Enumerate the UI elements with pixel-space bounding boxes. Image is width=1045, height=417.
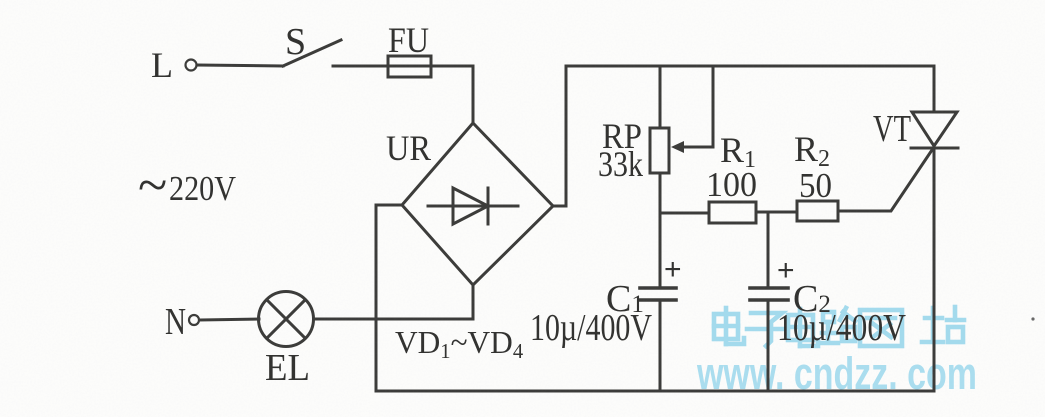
wire VT cathode down right side bbox=[933, 148, 936, 391]
capacitor C1 plates bbox=[640, 286, 676, 290]
lamp EL X stroke 2 bbox=[267, 300, 305, 338]
potentiometer RP body bbox=[650, 128, 669, 173]
wire lamp to bridge bottom bbox=[314, 285, 474, 319]
wire L to switch bbox=[197, 65, 283, 66]
watermark char zhan bbox=[931, 308, 936, 340]
bridge diode triangle bbox=[453, 188, 488, 224]
wire R2 to gate diagonal bbox=[838, 150, 932, 211]
wire down to bridge top vertex bbox=[472, 66, 475, 123]
wire bridge left vertex to left drop bbox=[376, 205, 402, 391]
wire C1 to bottom bus bbox=[659, 300, 662, 391]
wire RP junction down to C1 bbox=[659, 213, 662, 288]
wire bus down to RP bbox=[659, 66, 662, 128]
lamp EL X stroke 1 bbox=[267, 300, 305, 338]
wire junction to R1 bbox=[660, 212, 709, 215]
wire N to lamp bbox=[200, 319, 259, 320]
terminal L circle bbox=[186, 60, 197, 71]
wire bus to VT anode bbox=[933, 66, 936, 112]
watermark char lu bbox=[823, 312, 834, 322]
thyristor VT triangle bbox=[912, 112, 957, 146]
fuse FU through-wire bbox=[388, 65, 473, 68]
RP wiper arrowhead bbox=[671, 141, 684, 153]
wire C2 to bottom bus bbox=[767, 300, 770, 391]
scan noise overlay bbox=[0, 0, 1, 1]
bridge rectifier UR diamond bbox=[402, 123, 553, 285]
watermark char dian 2 bbox=[788, 315, 813, 340]
bridge diode cathode bar bbox=[487, 188, 490, 224]
terminal N circle bbox=[189, 315, 199, 325]
wire bridge right vertex up to top bus bbox=[553, 66, 566, 206]
watermark char zi bbox=[751, 313, 782, 346]
RP wiper drop from bus bbox=[678, 66, 713, 147]
wire R1 to R2 bbox=[756, 211, 797, 214]
wire RP bottom to junction bbox=[659, 173, 662, 213]
bottom bus wire bbox=[376, 390, 934, 393]
watermark char dian 1 bbox=[714, 314, 738, 339]
wire R1R2 junction down to C2 bbox=[767, 212, 770, 288]
speck dot bbox=[1031, 317, 1034, 320]
watermark Chinese characters (under layer) bbox=[714, 307, 964, 346]
capacitor C2 plates bbox=[750, 286, 788, 290]
watermark char tu bbox=[860, 310, 902, 346]
top bus wire bbox=[566, 65, 934, 68]
wire switch to fuse bbox=[333, 65, 388, 68]
lamp EL circle bbox=[259, 292, 314, 347]
bridge diode line bbox=[428, 205, 518, 208]
resistor R2 body bbox=[797, 201, 838, 221]
switch S arm bbox=[283, 40, 341, 66]
resistor R1 body bbox=[709, 202, 756, 223]
fuse FU body bbox=[388, 56, 431, 77]
thyristor VT cathode bar bbox=[911, 147, 958, 150]
